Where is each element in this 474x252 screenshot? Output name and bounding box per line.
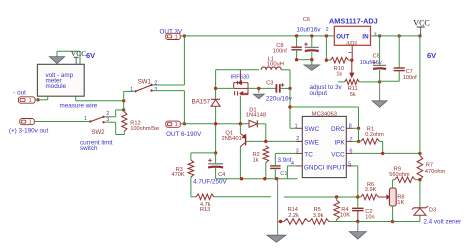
svg-text:470ohm: 470ohm: [425, 169, 446, 175]
svg-text:IPK: IPK: [334, 139, 345, 146]
svg-text:CI INPUT: CI INPUT: [318, 164, 345, 171]
svg-text:1: 1: [175, 34, 178, 40]
svg-text:R7: R7: [426, 162, 433, 168]
svg-text:BA157: BA157: [192, 98, 211, 105]
svg-text:- out: - out: [13, 89, 26, 96]
svg-text:R13: R13: [200, 207, 210, 213]
svg-text:2: 2: [296, 136, 299, 142]
svg-text:10K: 10K: [340, 213, 350, 219]
svg-text:measure wire: measure wire: [60, 103, 98, 110]
svg-text:GND: GND: [304, 164, 319, 171]
svg-text:1: 1: [175, 122, 178, 128]
svg-text:5k: 5k: [350, 92, 356, 98]
svg-text:(+) 3-190v out: (+) 3-190v out: [9, 128, 49, 135]
svg-text:1: 1: [84, 116, 87, 122]
svg-text:D3: D3: [429, 208, 436, 214]
svg-text:switch: switch: [80, 145, 98, 152]
svg-text:SWE: SWE: [304, 139, 319, 146]
svg-text:7: 7: [350, 137, 353, 143]
svg-text:C6: C6: [303, 17, 310, 23]
svg-text:6V: 6V: [427, 51, 436, 60]
svg-text:560ohm: 560ohm: [389, 172, 410, 178]
svg-text:C4: C4: [218, 172, 225, 178]
svg-text:1: 1: [29, 98, 32, 104]
svg-text:C1: C1: [280, 171, 287, 177]
svg-text:100nf: 100nf: [273, 49, 287, 55]
svg-text:2: 2: [326, 27, 329, 33]
svg-text:ADJ: ADJ: [346, 40, 358, 47]
svg-text:0.2ohm: 0.2ohm: [365, 132, 384, 138]
svg-text:output: output: [310, 90, 328, 97]
svg-text:100nf: 100nf: [403, 75, 417, 81]
svg-text:SW1: SW1: [138, 80, 152, 86]
svg-text:1k: 1k: [336, 71, 342, 77]
svg-text:2.2k: 2.2k: [288, 213, 299, 219]
svg-text:1: 1: [130, 87, 133, 93]
svg-text:DRC: DRC: [331, 126, 345, 133]
svg-text:3.9nf: 3.9nf: [278, 157, 292, 164]
svg-text:2.4 volt zener: 2.4 volt zener: [423, 218, 461, 225]
svg-text:1: 1: [29, 120, 32, 126]
svg-text:C3: C3: [266, 80, 273, 86]
svg-text:10n: 10n: [365, 214, 374, 220]
svg-text:4: 4: [291, 161, 294, 167]
svg-text:3.9k: 3.9k: [313, 213, 324, 219]
svg-text:C5: C5: [373, 53, 380, 59]
svg-text:OUT 6-190V: OUT 6-190V: [166, 131, 202, 138]
svg-text:4.7UF/250V: 4.7UF/250V: [193, 178, 227, 185]
svg-text:6: 6: [350, 149, 353, 155]
svg-text:5: 5: [348, 161, 351, 167]
svg-text:TC: TC: [304, 152, 313, 159]
svg-text:VCC: VCC: [331, 151, 345, 158]
svg-text:100ohm/5w: 100ohm/5w: [130, 126, 160, 132]
svg-text:1N4148: 1N4148: [246, 113, 266, 119]
svg-text:470K: 470K: [172, 172, 185, 178]
svg-text:SWC: SWC: [304, 126, 319, 133]
svg-text:2N5401: 2N5401: [222, 136, 242, 142]
svg-text:module: module: [46, 83, 67, 90]
svg-text:AMS1117-ADJ: AMS1117-ADJ: [329, 17, 378, 26]
svg-text:1K: 1K: [397, 200, 404, 206]
svg-text:3: 3: [296, 149, 299, 155]
svg-text:8: 8: [349, 123, 352, 129]
svg-text:220u/16v: 220u/16v: [266, 95, 293, 102]
svg-text:SW2: SW2: [92, 130, 106, 136]
svg-text:10uf/16v: 10uf/16v: [296, 26, 321, 33]
svg-text:VCC: VCC: [413, 19, 429, 28]
svg-text:3.9K: 3.9K: [365, 187, 377, 193]
svg-text:IRF630: IRF630: [231, 75, 250, 81]
svg-text:IN: IN: [362, 33, 369, 40]
svg-text:6V: 6V: [86, 51, 95, 60]
svg-text:1k: 1k: [253, 157, 259, 163]
